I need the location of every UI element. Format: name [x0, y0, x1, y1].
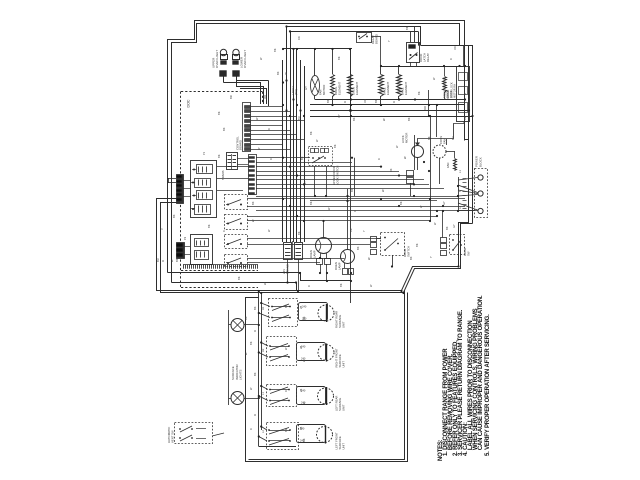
svg-text:BK: BK: [399, 201, 403, 205]
svg-text:MOTOR RH: MOTOR RH: [453, 84, 457, 98]
svg-text:RD: RD: [423, 106, 427, 110]
svg-text:L2: L2: [261, 430, 265, 433]
svg-text:BK: BK: [445, 226, 449, 230]
svg-text:BK: BK: [253, 306, 257, 310]
svg-text:LAMP: LAMP: [312, 250, 316, 258]
svg-text:BK: BK: [326, 99, 330, 103]
svg-text:W: W: [284, 347, 288, 350]
svg-text:BR: BR: [229, 95, 233, 99]
svg-text:ELEMENT: ELEMENT: [386, 81, 390, 95]
svg-text:H1: H1: [261, 306, 265, 310]
svg-text:R: R: [267, 128, 271, 130]
svg-text:R: R: [307, 285, 311, 287]
svg-text:UNIT: UNIT: [342, 361, 346, 368]
svg-text:SW: SW: [466, 251, 470, 256]
svg-text:BK: BK: [417, 91, 421, 95]
svg-text:W: W: [395, 145, 399, 148]
svg-text:Y: Y: [362, 230, 366, 232]
svg-text:Y: Y: [387, 40, 391, 42]
svg-text:GY: GY: [303, 181, 307, 185]
svg-text:BK: BK: [349, 228, 353, 232]
svg-text:BU: BU: [451, 136, 455, 140]
svg-text:GY: GY: [337, 114, 341, 118]
svg-text:VENT SW: VENT SW: [170, 430, 174, 443]
svg-text:W: W: [259, 57, 263, 60]
svg-text:BK: BK: [284, 428, 288, 432]
svg-text:W: W: [369, 284, 373, 287]
svg-text:OVEN LIGHT: OVEN LIGHT: [215, 50, 219, 68]
svg-text:BOARD: BOARD: [239, 140, 243, 150]
svg-text:W: W: [327, 207, 331, 210]
svg-text:DOC: DOC: [187, 99, 191, 107]
svg-text:2B: 2B: [299, 427, 303, 430]
svg-text:BK: BK: [207, 224, 211, 228]
svg-text:Y: Y: [429, 256, 433, 258]
svg-text:BLOCK: BLOCK: [478, 157, 482, 167]
svg-text:BOARD: BOARD: [446, 90, 450, 100]
svg-text:5. VERIFY PROPER OPERATION AFT: 5. VERIFY PROPER OPERATION AFTER SERVICI…: [485, 314, 491, 456]
svg-text:BK: BK: [175, 258, 179, 262]
svg-text:BK: BK: [374, 99, 378, 103]
svg-text:W: W: [419, 205, 423, 208]
svg-text:BK: BK: [302, 316, 306, 320]
svg-text:W: W: [382, 118, 386, 121]
svg-text:UNIT: UNIT: [342, 443, 346, 450]
svg-text:R: R: [284, 390, 288, 392]
svg-text:W: W: [381, 189, 385, 192]
svg-text:R: R: [302, 402, 306, 404]
svg-text:R: R: [249, 428, 253, 430]
svg-text:BK: BK: [309, 201, 313, 205]
svg-text:W: W: [251, 219, 255, 222]
svg-text:BK: BK: [352, 117, 356, 121]
svg-text:BK: BK: [297, 231, 301, 235]
svg-text:BK: BK: [350, 188, 354, 192]
svg-text:CAN CAUSE IMPROPER AND DANGERO: CAN CAUSE IMPROPER AND DANGEROUS OPERATI…: [478, 295, 484, 456]
svg-text:SWITCH: SWITCH: [406, 246, 410, 257]
svg-text:BK: BK: [237, 276, 241, 280]
svg-text:BK: BK: [309, 131, 313, 135]
svg-text:2B: 2B: [299, 306, 303, 309]
svg-text:LAMP: LAMP: [337, 262, 341, 270]
svg-text:R: R: [353, 210, 357, 212]
svg-text:BK: BK: [356, 246, 360, 250]
svg-text:R: R: [343, 101, 347, 103]
svg-text:GY: GY: [304, 86, 308, 90]
svg-text:BK: BK: [409, 256, 413, 260]
svg-text:BK: BK: [244, 316, 248, 320]
svg-text:BK: BK: [337, 56, 341, 60]
svg-text:FAN: FAN: [442, 139, 446, 144]
svg-text:R: R: [253, 414, 257, 416]
svg-text:BK: BK: [415, 243, 419, 247]
svg-text:BK: BK: [389, 168, 393, 172]
svg-text:BK: BK: [300, 156, 304, 160]
svg-text:W: W: [432, 77, 436, 80]
svg-text:R: R: [269, 158, 273, 160]
svg-text:OR: OR: [263, 95, 267, 99]
svg-text:2B: 2B: [299, 346, 303, 349]
svg-text:ELEMENT: ELEMENT: [337, 81, 341, 95]
svg-text:BK: BK: [333, 144, 337, 148]
svg-text:FAN: FAN: [446, 163, 450, 168]
svg-text:H2: H2: [261, 348, 265, 352]
svg-text:R: R: [449, 58, 453, 60]
svg-text:BU: BU: [297, 116, 301, 120]
svg-text:MOTOR: MOTOR: [404, 133, 408, 143]
svg-text:W: W: [403, 156, 407, 159]
svg-text:BK: BK: [405, 26, 409, 30]
svg-text:UNIT: UNIT: [342, 321, 346, 328]
svg-text:R: R: [222, 230, 226, 232]
svg-text:R: R: [392, 101, 396, 103]
svg-text:OR: OR: [453, 46, 457, 50]
svg-text:GY: GY: [452, 224, 456, 228]
svg-text:W: W: [433, 222, 437, 225]
svg-text:L2: L2: [458, 206, 462, 209]
svg-text:UNIT: UNIT: [342, 404, 346, 411]
svg-text:L1: L1: [458, 170, 462, 173]
svg-text:BK: BK: [427, 136, 431, 140]
svg-text:BK: BK: [339, 283, 343, 287]
svg-text:BK: BK: [407, 117, 411, 121]
svg-text:BK: BK: [217, 154, 221, 158]
svg-text:P2: P2: [183, 236, 187, 240]
svg-text:OR: OR: [363, 99, 367, 103]
svg-text:ELEMENT: ELEMENT: [404, 81, 408, 95]
svg-text:ELEMENT: ELEMENT: [355, 81, 359, 95]
svg-text:2B: 2B: [299, 389, 303, 392]
svg-text:V: V: [160, 228, 164, 230]
svg-text:BK: BK: [273, 48, 277, 52]
svg-text:BK: BK: [302, 438, 306, 442]
svg-text:BK: BK: [463, 116, 467, 120]
svg-text:BK: BK: [276, 71, 280, 75]
svg-text:BU: BU: [156, 258, 160, 262]
svg-text:RELAY: RELAY: [426, 53, 430, 62]
svg-text:W: W: [315, 139, 319, 142]
svg-text:RD: RD: [297, 36, 301, 40]
svg-text:P1: P1: [202, 151, 206, 155]
svg-text:MOTOR: MOTOR: [322, 85, 326, 95]
svg-text:BK: BK: [249, 341, 253, 345]
svg-text:BK: BK: [284, 304, 288, 308]
svg-text:BK: BK: [253, 372, 257, 376]
svg-text:N: N: [458, 190, 462, 192]
svg-text:R: R: [377, 158, 381, 160]
svg-text:LOCK SWITCH: LOCK SWITCH: [335, 166, 339, 185]
svg-text:TRANS: TRANS: [221, 170, 225, 180]
svg-text:(RH): (RH): [294, 89, 298, 95]
svg-text:R: R: [253, 330, 257, 332]
svg-text:W: W: [267, 229, 271, 232]
svg-text:W: W: [257, 147, 261, 150]
svg-text:W: W: [249, 387, 253, 390]
svg-text:LIGHTS: LIGHTS: [239, 369, 243, 380]
svg-text:OVEN LIGHT: OVEN LIGHT: [243, 50, 247, 68]
svg-text:W: W: [367, 257, 371, 260]
svg-text:BK: BK: [172, 214, 176, 218]
svg-text:GY: GY: [442, 201, 446, 205]
svg-text:BK: BK: [251, 201, 255, 205]
svg-text:BK: BK: [217, 111, 221, 115]
svg-text:R: R: [161, 260, 165, 262]
svg-text:W: W: [255, 117, 259, 120]
svg-text:BOARD: BOARD: [374, 34, 378, 44]
svg-text:BK: BK: [222, 127, 226, 131]
